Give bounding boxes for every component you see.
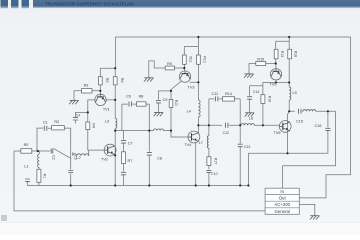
svg-text:C2: C2	[52, 155, 56, 159]
svg-text:R2: R2	[54, 120, 59, 124]
svg-text:R5: R5	[105, 78, 109, 83]
svg-text:AC+200: AC+200	[274, 202, 290, 207]
svg-text:C13: C13	[244, 145, 250, 149]
svg-text:R8: R8	[139, 94, 144, 98]
svg-text:R18: R18	[293, 51, 297, 57]
svg-text:L4: L4	[187, 110, 191, 114]
svg-text:L5: L5	[293, 91, 297, 95]
svg-text:C6: C6	[126, 94, 131, 98]
svg-text:R6: R6	[120, 78, 124, 83]
svg-text:In: In	[280, 189, 284, 194]
svg-text:C10: C10	[211, 172, 217, 176]
svg-text:TV6: TV6	[274, 131, 281, 135]
svg-text:R17: R17	[214, 158, 218, 164]
svg-text:R1: R1	[43, 174, 47, 178]
svg-text:C15: C15	[296, 119, 303, 123]
svg-text:R4: R4	[92, 123, 96, 127]
svg-text:L1: L1	[24, 165, 28, 169]
svg-text:R10: R10	[174, 100, 178, 106]
svg-text:R12: R12	[202, 56, 206, 62]
svg-text:C9: C9	[163, 98, 168, 102]
svg-text:TV2: TV2	[101, 157, 108, 161]
svg-text:C4: C4	[76, 114, 80, 118]
svg-text:C7: C7	[128, 141, 133, 145]
svg-text:TV4: TV4	[184, 143, 191, 147]
svg-text:C3: C3	[73, 155, 77, 159]
svg-text:Out: Out	[279, 196, 287, 201]
svg-text:L7: L7	[199, 141, 203, 145]
svg-text:R3: R3	[84, 84, 89, 88]
svg-text:C8: C8	[157, 156, 162, 160]
svg-text:TV1: TV1	[103, 107, 110, 111]
svg-text:C1: C1	[43, 120, 48, 124]
svg-text:C11: C11	[211, 92, 218, 96]
svg-text:C12: C12	[223, 131, 229, 135]
svg-text:R14: R14	[225, 92, 232, 96]
svg-text:R11: R11	[188, 57, 192, 63]
svg-text:R0: R0	[24, 143, 29, 147]
svg-text:L8: L8	[249, 116, 253, 120]
svg-text:R15: R15	[257, 58, 264, 62]
svg-text:C14: C14	[253, 90, 259, 94]
svg-text:C16: C16	[315, 124, 322, 128]
svg-text:R7: R7	[128, 159, 133, 163]
svg-text:R16: R16	[267, 96, 271, 102]
svg-text:TV3: TV3	[188, 85, 195, 89]
svg-text:L3: L3	[105, 119, 109, 123]
svg-text:R13: R13	[280, 51, 284, 57]
svg-text:TV5: TV5	[270, 83, 277, 87]
svg-text:General: General	[275, 209, 290, 214]
svg-text:R9: R9	[167, 62, 172, 66]
